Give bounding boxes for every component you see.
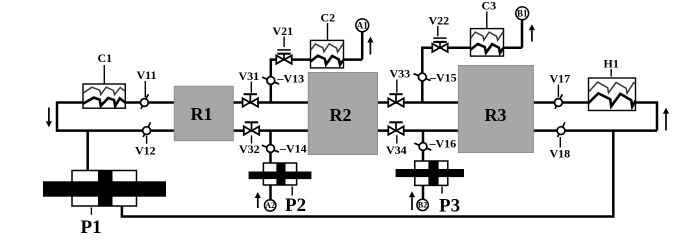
svg-text:V31: V31 [239,69,260,83]
svg-text:B1: B1 [517,8,528,18]
svg-text:–V15: –V15 [429,71,457,85]
svg-text:V22: V22 [429,14,450,28]
svg-text:V32: V32 [239,142,260,156]
svg-text:–V14: –V14 [279,142,307,156]
svg-text:P2: P2 [285,195,306,216]
svg-text:B2: B2 [418,201,427,210]
svg-text:C3: C3 [482,0,497,13]
svg-text:R2: R2 [330,105,352,125]
svg-text:A2: A2 [265,201,275,210]
svg-text:V33: V33 [390,67,411,81]
svg-text:H1: H1 [604,57,619,71]
svg-text:P1: P1 [81,217,102,238]
svg-text:V12: V12 [135,144,156,158]
svg-text:C1: C1 [98,51,113,65]
svg-text:P3: P3 [439,195,460,216]
svg-text:C2: C2 [321,11,336,25]
svg-text:–V16: –V16 [429,137,457,151]
svg-text:R1: R1 [191,104,213,124]
svg-text:V17: V17 [550,72,571,86]
svg-text:V18: V18 [550,147,571,161]
svg-text:V21: V21 [273,24,294,38]
svg-text:R3: R3 [485,105,507,125]
svg-text:V11: V11 [137,68,157,82]
svg-text:–V13: –V13 [277,72,305,86]
svg-text:A1: A1 [357,20,368,30]
svg-text:V34: V34 [386,143,407,157]
